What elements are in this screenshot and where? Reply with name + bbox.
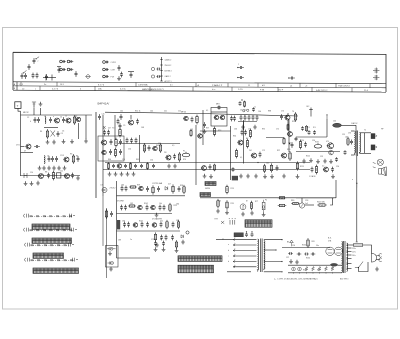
terminal dot	[275, 249, 276, 250]
wire bus tier left	[106, 208, 108, 278]
wire	[114, 115, 116, 140]
connector clip	[24, 173, 27, 178]
wire bottom rail	[288, 272, 342, 274]
ground	[263, 174, 267, 178]
transistor Q4	[26, 144, 31, 149]
legend cell divider	[351, 88, 353, 92]
svg-text:z: z	[38, 61, 39, 63]
trimmer arrow	[35, 57, 39, 60]
transistor Q23	[151, 205, 155, 209]
svg-text:2k2: 2k2	[249, 150, 252, 152]
capacitor C117	[289, 77, 295, 80]
svg-text:R80: R80	[291, 200, 294, 202]
thermistor TT	[330, 263, 338, 266]
resistor zigzag	[318, 267, 321, 271]
wire	[117, 257, 151, 259]
diode D7	[290, 240, 294, 246]
capacitor C0b	[120, 114, 123, 120]
capacitor C107	[45, 74, 48, 80]
capacitor C50	[311, 167, 314, 173]
capacitor C21b	[148, 145, 151, 151]
capacitor C101	[33, 58, 36, 64]
transistor Q17	[282, 153, 287, 158]
capacitor C38	[280, 114, 283, 120]
svg-text:b: b	[235, 260, 236, 262]
resistor zigzag	[305, 267, 308, 271]
svg-text:4 n: 4 n	[170, 85, 173, 87]
capacitor C27	[191, 117, 194, 123]
svg-text:1k5: 1k5	[143, 149, 146, 151]
svg-text:d D: d D	[262, 85, 266, 87]
band switch S1d contacts	[31, 259, 74, 261]
resistor R25	[152, 185, 154, 194]
svg-text:10k: 10k	[159, 203, 162, 205]
ground	[246, 174, 250, 178]
ground	[253, 125, 257, 129]
resistor R75	[217, 199, 219, 208]
wire	[363, 245, 372, 254]
power transformer primary	[342, 242, 343, 273]
trimmer capacitor	[373, 75, 379, 80]
wire feed down	[335, 180, 337, 198]
legend cell divider	[56, 82, 58, 86]
svg-text:R102: R102	[144, 203, 148, 205]
mains transformer secondary	[264, 241, 265, 271]
wire tier1 rail	[117, 195, 186, 197]
capacitor C53	[125, 186, 128, 192]
ground	[39, 102, 43, 106]
capacitor C3	[49, 117, 52, 123]
band switch S1d wafer	[33, 268, 79, 273]
resistor R7b	[160, 143, 162, 153]
loudspeaker LS1	[102, 188, 107, 193]
ground	[117, 76, 121, 80]
svg-text:12k: 12k	[248, 129, 251, 131]
varicap symbol	[86, 74, 91, 79]
transformer lead 6	[233, 266, 257, 268]
ground	[216, 209, 220, 213]
svg-text:C4: C4	[60, 117, 62, 119]
resistor R21	[347, 137, 349, 146]
svg-text:C55: C55	[122, 159, 125, 161]
capacitor C70	[165, 235, 168, 241]
svg-text:C8: C8	[47, 156, 49, 158]
capacitor C57	[120, 205, 123, 211]
mains switch S3	[355, 262, 363, 268]
wire	[351, 130, 354, 132]
ground	[262, 212, 266, 216]
ground	[24, 181, 28, 185]
transformer T2 primary	[354, 131, 355, 155]
capacitor C76	[251, 233, 254, 237]
svg-text:C72: C72	[276, 129, 279, 131]
ground	[30, 181, 34, 185]
transistor Q2	[66, 118, 71, 123]
arrow to jack	[373, 163, 376, 168]
connector block	[232, 176, 238, 181]
svg-text:C11: C11	[60, 171, 63, 173]
voltage table 3	[178, 265, 214, 273]
wire	[33, 108, 35, 115]
band switch S1c wafer	[33, 253, 64, 258]
capacitor C36	[256, 115, 259, 121]
wire	[355, 125, 357, 131]
svg-text:u: u	[160, 239, 161, 241]
svg-text:4k7: 4k7	[108, 128, 111, 130]
legend tick	[160, 80, 162, 82]
band switch S1b input mark	[23, 228, 28, 232]
svg-text:R.5: R.5	[313, 127, 316, 129]
svg-text:B4F41A/: B4F41A/	[98, 102, 110, 106]
ground	[155, 213, 159, 217]
ground	[316, 159, 320, 163]
band switch S1b wafer	[32, 238, 72, 243]
lead terminal	[233, 239, 235, 241]
ground	[52, 140, 56, 144]
svg-text:TT: TT	[331, 268, 333, 270]
wire input rail	[21, 114, 93, 116]
svg-text:C95: C95	[348, 133, 351, 135]
lead terminal	[233, 255, 235, 257]
svg-text:150: 150	[333, 121, 336, 123]
mains plug P1	[372, 253, 381, 262]
svg-text:B6: B6	[287, 242, 289, 244]
tap lead	[347, 251, 352, 253]
resistor R14c	[306, 125, 308, 132]
transistor Q18	[328, 143, 334, 149]
wire	[347, 244, 354, 246]
svg-text:C48: C48	[141, 127, 144, 129]
svg-text:R107: R107	[139, 221, 143, 223]
resistor R20	[289, 151, 291, 161]
svg-text:C/A 152: C/A 152	[351, 122, 357, 125]
svg-text:4 AV 292/1 2: 4 AV 292/1 2	[316, 89, 328, 92]
svg-text:a: a	[238, 64, 239, 66]
volume pot RV2	[299, 203, 304, 208]
ground	[203, 129, 207, 133]
ground	[62, 139, 66, 143]
svg-text:C73: C73	[151, 239, 154, 241]
svg-text:Y17: Y17	[112, 128, 115, 130]
svg-text:b: b	[235, 238, 236, 240]
svg-text:L3: L3	[62, 155, 64, 157]
supply arrow	[326, 114, 327, 119]
speaker terminal block 1	[371, 133, 375, 139]
meter M1	[240, 204, 246, 210]
capacitor C47	[344, 150, 347, 155]
diode D17	[103, 68, 106, 71]
wire	[360, 152, 372, 154]
svg-text:2TU/12: 2TU/12	[110, 188, 116, 190]
crossing wires	[51, 131, 56, 137]
ground	[70, 139, 74, 143]
svg-text:R81: R81	[312, 241, 315, 243]
capacitor C13	[117, 119, 120, 125]
transformer lead 2	[233, 244, 257, 246]
wire	[296, 136, 327, 138]
ground	[120, 172, 124, 176]
capacitor C55	[157, 186, 160, 192]
ground	[47, 166, 51, 170]
legend cell divider	[39, 86, 41, 90]
svg-text:3TU/FM: 3TU/FM	[117, 201, 124, 203]
capacitor C110	[118, 65, 121, 71]
capacitor C78	[297, 253, 302, 256]
svg-text:C84: C84	[176, 204, 179, 206]
ground	[181, 240, 185, 244]
wire	[44, 127, 58, 129]
svg-text:2-2%: 2-2%	[238, 89, 243, 91]
wire	[128, 71, 134, 73]
svg-text:220v: 220v	[352, 248, 356, 250]
jack socket J1	[377, 159, 383, 165]
svg-text:R8: R8	[45, 172, 47, 174]
resistor R12	[196, 115, 198, 125]
capacitor C56	[178, 186, 181, 192]
resistor R8	[108, 162, 110, 169]
transistor Q8	[129, 120, 134, 125]
tap lead	[347, 268, 352, 270]
capacitor C34	[248, 115, 251, 121]
svg-text:R20: R20	[287, 149, 290, 151]
ground	[46, 140, 50, 144]
ground	[323, 159, 327, 163]
capacitor C79	[304, 253, 309, 256]
svg-text:R60: R60	[108, 159, 111, 161]
svg-text:C2: C2	[27, 117, 29, 119]
svg-text:0,1: 0,1	[206, 110, 208, 112]
svg-text:R4: R4	[40, 131, 42, 133]
transistor Q24	[133, 223, 137, 227]
svg-text:C64: C64	[258, 111, 261, 113]
resistor R10	[147, 162, 149, 169]
legend chain wire	[161, 57, 163, 81]
terminal dot	[281, 239, 282, 240]
capacitor C32	[240, 115, 243, 121]
svg-text:C44: C44	[150, 111, 153, 113]
junction	[299, 272, 300, 273]
transistor Q9b	[102, 150, 106, 154]
resistor R34	[176, 240, 178, 249]
wire tier3 rail	[117, 230, 181, 232]
tap lead	[347, 254, 352, 256]
diode D104	[67, 68, 70, 71]
resistor zigzag	[312, 267, 315, 271]
wire	[301, 198, 303, 203]
svg-text:B.5: B.5	[307, 127, 310, 129]
resistor R26	[172, 184, 174, 193]
wire vertical chain	[243, 122, 245, 164]
ground	[209, 174, 213, 178]
svg-text:R136: R136	[303, 270, 307, 272]
potentiometer RV4	[182, 153, 190, 157]
capacitor C6	[34, 145, 40, 148]
capacitor C16	[107, 130, 110, 136]
svg-text:C94: C94	[336, 166, 339, 168]
svg-text:L1: L1	[44, 116, 46, 118]
legend cell divider	[369, 84, 371, 88]
capacitor C105	[32, 73, 35, 79]
svg-text:b: b	[235, 265, 236, 267]
svg-text:R51 1k: R51 1k	[135, 111, 141, 113]
svg-text:MAINTENANCE N 5171: MAINTENANCE N 5171	[142, 88, 164, 91]
svg-text:AC127 1: AC127 1	[165, 80, 172, 83]
wire lower rail	[288, 264, 342, 266]
transistor Q11	[166, 155, 171, 160]
ground	[175, 248, 179, 252]
terminal dot	[281, 261, 282, 262]
capacitor C7	[48, 156, 51, 162]
ground	[126, 172, 130, 176]
diode D11	[103, 61, 106, 64]
ground	[155, 243, 159, 247]
transistor Q14	[285, 115, 290, 120]
wire transformer to mains	[356, 156, 358, 242]
resistor R20b	[297, 161, 299, 170]
voltage table 1	[245, 220, 272, 227]
diode symbol	[151, 75, 154, 78]
svg-text:OA95 2: OA95 2	[165, 75, 171, 78]
potentiometer RV3	[262, 202, 265, 209]
wire	[364, 133, 366, 154]
transistor Q15	[238, 140, 243, 145]
wire	[18, 108, 21, 111]
resistor R7	[144, 143, 146, 153]
capacitor C111	[120, 72, 123, 78]
svg-text:P2: P2	[265, 200, 267, 202]
svg-text:0,1: 0,1	[240, 157, 242, 159]
svg-text:P1: P1	[183, 151, 185, 153]
capacitor C114	[156, 75, 160, 78]
ground	[239, 174, 243, 178]
capacitor C20b	[130, 138, 133, 144]
svg-text:MF2: MF2	[216, 104, 220, 106]
wire bottom rail A	[21, 175, 81, 177]
wire	[45, 75, 47, 81]
legend cell divider	[257, 83, 259, 87]
svg-text:127v: 127v	[352, 252, 356, 254]
wire	[195, 125, 197, 185]
capacitor C22	[124, 164, 127, 168]
capacitor C72	[110, 211, 113, 217]
svg-text:R6: R6	[76, 156, 78, 158]
svg-text:47k: 47k	[160, 221, 163, 223]
svg-text:C6: C6	[62, 131, 64, 133]
capacitor C44	[308, 130, 311, 135]
inductor L1	[44, 117, 47, 124]
legend tick	[160, 64, 162, 66]
capacitor C45	[313, 130, 316, 135]
resistor R17	[236, 149, 238, 159]
capacitor C15	[103, 130, 106, 136]
ground	[331, 174, 335, 178]
capacitor C66	[146, 222, 149, 228]
svg-text:C4: C4	[61, 133, 63, 135]
transistor Q11b	[202, 166, 207, 171]
svg-text:C W7: C W7	[111, 70, 116, 72]
ground	[329, 159, 333, 163]
legend tick	[160, 75, 162, 77]
wire long rail 2	[103, 169, 310, 171]
junction	[251, 231, 252, 232]
svg-text:0,5: 0,5	[322, 166, 324, 168]
wire	[227, 271, 251, 273]
ground	[108, 251, 112, 255]
junction	[257, 162, 258, 163]
capacitor C21	[112, 164, 115, 168]
lead terminal	[233, 261, 235, 263]
legend cell divider	[277, 87, 279, 91]
capacitor C1	[34, 117, 37, 123]
junction	[319, 272, 320, 273]
switch S2 arrows	[221, 221, 224, 224]
capacitor C26b	[209, 164, 212, 170]
svg-text:C27/P4.6dB: C27/P4.6dB	[152, 183, 163, 185]
resistor R18	[264, 164, 266, 173]
capacitor C12	[71, 173, 74, 179]
capacitor C113	[156, 68, 160, 71]
ground	[173, 164, 177, 168]
resistor R12b	[190, 129, 192, 136]
wire	[139, 135, 141, 162]
diode D19	[103, 75, 106, 78]
junction	[293, 272, 294, 273]
ground	[109, 267, 113, 271]
capacitor C37	[252, 107, 255, 111]
ground	[167, 164, 171, 168]
capacitor C54	[146, 186, 149, 192]
resistor R29	[169, 203, 171, 212]
svg-text:C89: C89	[118, 240, 121, 242]
svg-text:R137: R137	[317, 270, 321, 272]
wire supply rail	[282, 247, 330, 249]
ground	[132, 172, 136, 176]
capacitor C9	[55, 156, 58, 162]
svg-text:R79: R79	[215, 219, 218, 221]
wire	[21, 152, 34, 154]
switch contacts S2	[229, 219, 236, 225]
ground	[162, 247, 166, 251]
transformer core	[260, 239, 262, 273]
wire dropper	[78, 123, 80, 139]
resistor R11	[179, 152, 181, 162]
can divider	[211, 111, 227, 113]
svg-text:C42: C42	[120, 111, 123, 113]
resistor R32	[155, 232, 157, 241]
resistor R24	[129, 186, 137, 188]
wire bus centre	[230, 126, 232, 180]
junction	[288, 77, 289, 78]
svg-text:b: b	[235, 254, 236, 256]
ground	[114, 172, 118, 176]
transformer lead 1	[233, 239, 257, 241]
ground	[154, 247, 158, 251]
wire	[266, 137, 284, 139]
lead terminal	[233, 244, 235, 246]
lead terminal	[233, 266, 235, 268]
secondary lead	[264, 271, 282, 273]
inductor L2	[44, 156, 45, 164]
legend cell divider	[192, 87, 194, 91]
resistor zigzag	[331, 267, 334, 271]
wire long rail 1	[105, 162, 310, 164]
svg-text:B.S.: B.S.	[328, 238, 332, 240]
ground	[241, 125, 245, 129]
capacitor C63	[123, 222, 126, 228]
FM tuner box	[98, 136, 124, 161]
resistor R1	[74, 115, 76, 125]
tap lead	[347, 263, 352, 265]
